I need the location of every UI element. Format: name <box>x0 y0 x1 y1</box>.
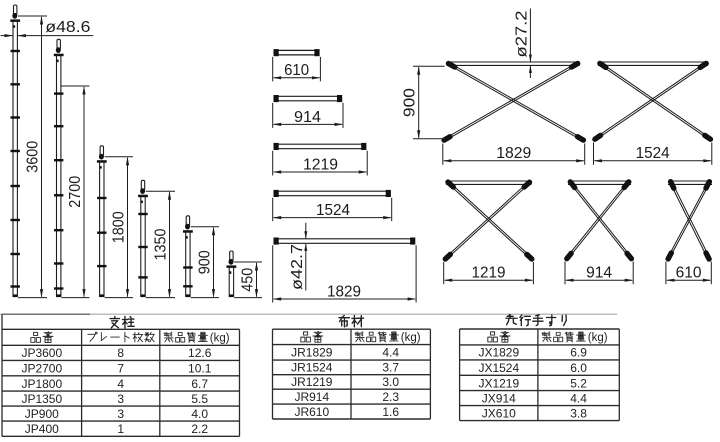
svg-text:JP400: JP400 <box>25 422 59 436</box>
svg-text:6.9: 6.9 <box>570 346 587 360</box>
tube JR610 left end clamp <box>274 49 279 56</box>
post JP3600 tube right <box>16 21 18 298</box>
post JP3600 plate 8 <box>11 285 20 287</box>
tube JR914 dim arrow left <box>273 123 282 126</box>
post JP2700 plate 3 <box>54 159 63 161</box>
svg-text:5.5: 5.5 <box>191 392 208 406</box>
xframe JX610 left extension line <box>665 262 667 285</box>
xframe JX1219 dim arrow left <box>444 279 453 282</box>
post JP2700 tube left <box>56 55 58 297</box>
post JP2700 wedge <box>56 47 61 53</box>
tube JR914 left end clamp <box>274 95 279 102</box>
post JP1350 plate 2 <box>138 246 147 248</box>
svg-text:610: 610 <box>676 265 702 282</box>
post JP2700 plate 6 <box>54 262 63 264</box>
table2 hline 6 <box>273 418 431 420</box>
tube JR610 dimension line <box>274 77 320 79</box>
post JP3600 collar <box>10 19 20 22</box>
post JP1800 plate 3 <box>97 265 106 267</box>
post JP900 pin <box>186 216 189 226</box>
table1 hline 7 <box>2 420 240 422</box>
xframe JX1219 bottom-right clamp <box>527 254 532 259</box>
xframe JX610 diagonal TL-BR <box>671 184 708 258</box>
post JP400 dimension line <box>256 263 258 297</box>
xframe JX914 top rail top edge <box>568 180 631 182</box>
post JP400 collar <box>227 265 237 268</box>
dia27.2 arrow up <box>529 65 532 73</box>
xframe JX610 bottom-right clamp <box>706 253 709 259</box>
svg-text:10.1: 10.1 <box>188 361 212 375</box>
table1 col line 2 <box>159 329 161 436</box>
post JP1800 wedge <box>99 154 104 160</box>
svg-text:JP1350: JP1350 <box>21 392 62 406</box>
post JP900 tube right <box>189 231 191 297</box>
svg-text:610: 610 <box>284 62 309 79</box>
svg-text:1829: 1829 <box>327 283 361 300</box>
post JP900 top extension line <box>191 226 219 228</box>
svg-text:3.0: 3.0 <box>382 375 399 389</box>
xframe JX914 diagonal TR-BL <box>568 183 627 257</box>
svg-text:2.2: 2.2 <box>191 422 208 436</box>
post JP2700 plate 1 <box>54 92 63 94</box>
post JP3600 wedge <box>12 13 17 19</box>
post JP1800 tube left <box>99 161 101 297</box>
table3 header hinban <box>488 331 510 342</box>
xframe JX914 dim arrow right <box>625 279 634 282</box>
table2 col line <box>350 329 352 419</box>
post JP1800 rivet <box>100 166 102 169</box>
post JP400 pin <box>230 251 233 261</box>
xframe JX1524 dim arrow left <box>594 159 603 162</box>
post JP3600 tube left <box>12 21 14 298</box>
svg-text:3.8: 3.8 <box>570 406 587 420</box>
xframe JX914 bottom-right clamp <box>627 253 631 258</box>
xframe JX1219 top-left clamp <box>448 182 453 187</box>
tube JR1219 top edge <box>277 143 363 145</box>
svg-text:4: 4 <box>117 377 124 391</box>
xframe JX1829 dim arrow left <box>443 159 452 162</box>
tube JR610 dim arrow left <box>273 76 282 79</box>
xframe JX1524 dim arrow right <box>703 159 712 162</box>
xframe JX1829 top rail bottom edge <box>447 64 580 66</box>
post JP400 bottom extension line <box>234 297 262 299</box>
tube JR914 right extension line <box>342 103 344 128</box>
xframe JX610 dim arrow right <box>703 279 712 282</box>
table1 hline 3 <box>2 359 240 361</box>
table3 hline 5 <box>460 405 620 407</box>
svg-text:(kg): (kg) <box>210 332 230 344</box>
svg-text:JR1219: JR1219 <box>291 375 333 389</box>
table1 title shichu <box>110 317 134 328</box>
xframe JX610 right extension line <box>710 262 712 285</box>
post JP1800 bottom extension line <box>105 297 133 299</box>
dia48.6 arrow left-pointing <box>17 34 26 37</box>
tube JR1829 bottom edge <box>277 242 412 244</box>
tube JR1829 dimension line <box>274 298 415 300</box>
tube JR914 dimension line <box>274 123 342 125</box>
dia42.7 arrow down <box>304 231 307 239</box>
dia48.6 left leader <box>1 35 13 37</box>
xframe JX1219 top rail bottom edge <box>446 183 532 185</box>
svg-text:2700: 2700 <box>67 176 84 208</box>
tube JR1829 dim arrow left <box>273 297 282 300</box>
table2 left border <box>272 329 274 419</box>
tube JR1219 right extension line <box>366 151 368 176</box>
tube JR1829 dim arrow right <box>408 297 417 300</box>
svg-text:3.7: 3.7 <box>382 361 399 375</box>
post JP400 top extension line <box>234 261 262 263</box>
post JP400 dim arrow down <box>255 289 258 298</box>
post JP400 tube right <box>233 267 235 298</box>
xframe JX610 top rail top edge <box>668 180 712 182</box>
tube JR1524 left extension line <box>272 198 274 221</box>
gray separator line <box>0 313 617 315</box>
tube JR1829 right end clamp <box>410 238 415 245</box>
svg-text:(kg): (kg) <box>401 332 421 344</box>
xframe JX1524 left extension line <box>593 143 595 165</box>
table3 title senko-tesuri <box>506 315 566 326</box>
table1 hline 6 <box>2 405 240 407</box>
table1 left border <box>1 314 3 436</box>
table1 col line 1 <box>81 329 83 436</box>
post JP900 dim arrow up <box>212 227 215 236</box>
tube JR914 top edge <box>277 95 339 97</box>
tube JR1524 dim arrow right <box>383 216 392 219</box>
post JP1800 bottom cap <box>100 294 105 297</box>
table2 header hinban <box>301 331 323 342</box>
table3 hline 4 <box>460 390 620 392</box>
table3 hline 2 <box>460 359 620 361</box>
post JP400 rivet <box>229 271 231 274</box>
post JP2700 top extension line <box>62 85 90 87</box>
svg-text:JR1524: JR1524 <box>291 361 333 375</box>
xframe JX1829 dim arrow right <box>576 159 585 162</box>
post JP1350 tube left <box>140 196 142 297</box>
tube JR1524 left end clamp <box>274 190 279 197</box>
post JP1350 top extension line <box>146 190 175 192</box>
xframe JX1524 diagonal TR-BL <box>596 64 704 138</box>
tube JR610 left extension line <box>272 57 274 81</box>
dia42.7 arrow up <box>304 243 307 251</box>
table1 hline 1 <box>2 328 240 330</box>
xframe JX1524 bottom-right clamp <box>705 135 711 139</box>
post JP2700 dim arrow down <box>82 289 85 298</box>
svg-text:4.0: 4.0 <box>191 407 208 421</box>
tube JR1524 dimension line <box>274 217 391 219</box>
post JP1800 collar <box>97 160 107 163</box>
post JP1350 dimension line <box>169 192 171 296</box>
post JP900 rivet <box>186 236 188 239</box>
xframe JX1829 bottom-right clamp <box>578 137 584 140</box>
xframe JX610 dim arrow left <box>666 279 675 282</box>
svg-text:1350: 1350 <box>152 228 169 260</box>
xframe JX610 bottom-left clamp <box>668 253 671 259</box>
xframe JX1524 top-left clamp <box>600 63 606 67</box>
tube JR610 top edge <box>277 49 316 51</box>
post JP2700 dim arrow up <box>82 86 85 95</box>
post JP2700 bottom extension line <box>62 297 90 299</box>
svg-text:1524: 1524 <box>316 202 350 219</box>
tube JR610 dim arrow right <box>312 76 321 79</box>
post JP1350 plate 3 <box>138 276 147 278</box>
xframe JX1219 bottom-left clamp <box>445 254 450 259</box>
table1 header seihin-shitsuryo <box>164 332 208 342</box>
post JP2700 plate 5 <box>54 229 63 231</box>
post JP900 collar <box>183 230 193 233</box>
post JP2700 pin <box>57 39 60 49</box>
xframe JX1524 top-right clamp <box>700 63 706 67</box>
dia27.2 arrow down <box>529 55 532 63</box>
tube JR610 right end clamp <box>314 49 319 56</box>
xframe JX914 dim arrow left <box>565 279 574 282</box>
svg-text:6.7: 6.7 <box>191 377 208 391</box>
post JP3600 plate 7 <box>11 253 20 255</box>
post JP1350 pin <box>141 180 144 190</box>
post JP900 dimension line <box>213 228 215 297</box>
xframe JX610 top-left clamp <box>671 182 674 189</box>
svg-text:JR610: JR610 <box>294 405 329 419</box>
svg-text:914: 914 <box>586 265 612 282</box>
post JP3600 plate 6 <box>11 219 20 221</box>
svg-text:900: 900 <box>402 88 419 117</box>
tube JR610 bottom edge <box>277 54 316 56</box>
900dim arrow down <box>417 130 420 139</box>
xframe JX1829 diagonal TL-BR <box>450 65 581 140</box>
svg-text:ø48.6: ø48.6 <box>45 19 90 36</box>
post JP2700 bottom cap <box>56 294 61 297</box>
svg-text:3600: 3600 <box>24 141 41 173</box>
post JP1350 bottom extension line <box>146 297 175 299</box>
post JP1350 tube right <box>144 196 146 297</box>
svg-text:900: 900 <box>196 250 213 274</box>
dia48.6 right leader <box>18 35 94 37</box>
dia27.2 lower leader <box>529 66 531 78</box>
tube JR1219 dimension line <box>274 171 367 173</box>
tube JR1219 left extension line <box>272 151 274 176</box>
svg-text:JP1800: JP1800 <box>21 377 62 391</box>
post JP3600 dim arrow down <box>40 289 43 298</box>
table1 header hinban <box>31 332 53 343</box>
svg-text:ø42.7: ø42.7 <box>289 244 306 290</box>
post JP2700 plate 2 <box>54 125 63 127</box>
xframe JX914 dimension line <box>566 279 632 281</box>
svg-text:1524: 1524 <box>636 145 670 162</box>
xframe JX914 top-right clamp <box>624 182 629 188</box>
post JP1800 pin <box>100 146 103 156</box>
xframe JX610 dimension line <box>667 279 710 281</box>
xframe JX914 left extension line <box>564 262 566 285</box>
post JP3600 plate 3 <box>11 116 20 118</box>
svg-text:1219: 1219 <box>472 265 506 282</box>
tube JR1524 right end clamp <box>386 190 391 197</box>
table2 hline 5 <box>273 403 431 405</box>
table3 hline 0 <box>460 328 620 330</box>
post JP1350 wedge <box>140 188 145 194</box>
xframe JX1829 diagonal TR-BL <box>446 64 576 139</box>
900dim dimension line <box>418 67 420 138</box>
post JP900 plate 1 <box>183 266 192 268</box>
post JP1800 plate 2 <box>97 232 106 234</box>
table1 hline 8 <box>2 435 240 437</box>
post JP3600 plate 2 <box>11 83 20 85</box>
table3 right border <box>618 329 620 421</box>
table3 header seihin-shitsuryo <box>542 332 586 342</box>
post JP1800 tube right <box>103 161 105 297</box>
tube JR1829 left extension line <box>272 245 274 302</box>
svg-text:6.0: 6.0 <box>570 361 587 375</box>
xframe JX1829 dimension line <box>444 160 584 162</box>
post JP3600 dim arrow up <box>40 16 43 25</box>
900dim top extension line <box>413 65 445 67</box>
post JP900 bottom cap <box>186 294 191 297</box>
svg-text:JX610: JX610 <box>482 406 516 420</box>
xframe JX914 top rail bottom edge <box>568 183 631 185</box>
table1 hline 5 <box>2 390 240 392</box>
xframe JX1219 diagonal TL-BR <box>449 184 530 258</box>
post JP1350 rivet <box>141 201 143 204</box>
post JP400 bottom cap <box>229 294 234 297</box>
tube JR914 right end clamp <box>337 95 342 102</box>
post JP3600 bottom cap <box>13 294 18 297</box>
table2 hline 4 <box>273 388 431 390</box>
tube JR1219 dim arrow left <box>273 170 282 173</box>
table2 hline 1 <box>273 344 431 346</box>
xframe JX1524 bottom-left clamp <box>595 135 601 139</box>
xframe JX914 right extension line <box>632 262 634 285</box>
post JP400 dim arrow up <box>255 262 258 271</box>
tube JR1829 right extension line <box>415 245 417 302</box>
xframe JX610 top rail bottom edge <box>668 183 712 185</box>
tube JR1219 bottom edge <box>277 148 363 150</box>
post JP1350 dim arrow down <box>168 289 171 298</box>
svg-text:1219: 1219 <box>303 156 338 173</box>
table2 title fuzai <box>339 315 364 326</box>
tube JR1524 dim arrow left <box>273 216 282 219</box>
table2 hline 0 <box>273 328 431 330</box>
xframe JX1219 diagonal TR-BL <box>446 183 527 257</box>
post JP900 wedge <box>185 224 190 230</box>
table1 hline 4 <box>2 375 240 377</box>
xframe JX1219 right extension line <box>532 262 534 284</box>
post JP1800 plate 1 <box>97 197 106 199</box>
post JP900 bottom extension line <box>191 297 219 299</box>
table3 hline 3 <box>460 374 620 376</box>
xframe JX1829 bottom-left clamp <box>444 137 450 140</box>
xframe JX1219 dimension line <box>445 279 533 281</box>
xframe JX1829 right extension line <box>584 144 586 165</box>
post JP400 tube left <box>228 267 230 298</box>
svg-text:12.6: 12.6 <box>188 346 212 360</box>
post JP2700 plate 7 <box>54 287 63 289</box>
svg-text:4.4: 4.4 <box>382 346 399 360</box>
dia48.6 arrow right-pointing <box>5 34 14 37</box>
900dim bottom extension line <box>413 138 445 140</box>
xframe JX1829 top-left clamp <box>449 64 455 68</box>
xframe JX1524 right extension line <box>711 143 713 165</box>
xframe JX914 diagonal TL-BR <box>571 184 630 258</box>
svg-text:JP3600: JP3600 <box>21 346 62 360</box>
svg-text:5.2: 5.2 <box>570 376 587 390</box>
post JP2700 rivet <box>57 60 59 63</box>
svg-text:(kg): (kg) <box>588 332 608 344</box>
xframe JX1524 top rail top edge <box>598 61 708 63</box>
svg-text:1800: 1800 <box>110 211 127 243</box>
tube JR1829 top edge <box>277 238 412 240</box>
xframe JX1219 top rail top edge <box>446 180 532 182</box>
post JP3600 plate 1 <box>11 50 20 52</box>
post JP1800 top extension line <box>105 156 133 158</box>
xframe JX1829 top rail top edge <box>447 61 580 63</box>
svg-text:JP900: JP900 <box>25 407 59 421</box>
table2 right border <box>429 329 431 419</box>
svg-text:3: 3 <box>117 407 124 421</box>
tube JR914 dim arrow right <box>335 123 344 126</box>
svg-text:7: 7 <box>117 361 124 375</box>
svg-text:4.4: 4.4 <box>570 391 587 405</box>
post JP1800 dimension line <box>127 158 129 297</box>
xframe JX610 diagonal TR-BL <box>668 183 707 257</box>
xframe JX1219 dim arrow right <box>525 279 534 282</box>
table1 header plate-maisu <box>88 332 155 342</box>
xframe JX1219 top-right clamp <box>524 182 529 187</box>
table3 col line <box>537 329 539 421</box>
post JP1800 dim arrow up <box>126 157 129 166</box>
post JP2700 plate 4 <box>54 194 63 196</box>
svg-text:2.3: 2.3 <box>382 390 399 404</box>
xframe JX914 top-left clamp <box>570 182 574 188</box>
post JP3600 rivet <box>13 25 15 28</box>
svg-text:914: 914 <box>294 109 321 126</box>
tube JR914 bottom edge <box>277 100 339 102</box>
post JP1350 plate 1 <box>138 213 147 215</box>
table2 hline 2 <box>273 359 431 361</box>
post JP900 plate 2 <box>183 285 192 287</box>
post JP3600 plate 4 <box>11 150 20 152</box>
post JP3600 top extension line <box>18 15 47 17</box>
xframe JX1524 top rail bottom edge <box>598 64 708 66</box>
tube JR1829 left end clamp <box>274 238 279 245</box>
post JP3600 bottom extension line <box>18 297 47 299</box>
tube JR1219 dim arrow right <box>359 170 368 173</box>
post JP2700 dimension line <box>83 87 85 297</box>
svg-text:1.6: 1.6 <box>382 405 399 419</box>
xframe JX914 bottom-left clamp <box>567 253 571 258</box>
post JP2700 tube right <box>60 55 62 297</box>
svg-text:JP2700: JP2700 <box>21 361 62 375</box>
xframe JX1219 left extension line <box>443 262 445 284</box>
table2 header seihin-shitsuryo <box>355 332 399 342</box>
svg-text:JR1829: JR1829 <box>291 346 333 360</box>
table3 left border <box>459 329 461 421</box>
xframe JX1829 left extension line <box>442 144 444 165</box>
dia27.2 upper leader <box>529 9 531 62</box>
post JP1350 bottom cap <box>141 294 146 297</box>
xframe JX1524 dimension line <box>595 160 711 162</box>
svg-text:8: 8 <box>117 346 124 360</box>
svg-text:JR914: JR914 <box>294 390 329 404</box>
post JP3600 dimension line <box>41 17 43 297</box>
tube JR914 left extension line <box>272 103 274 128</box>
post JP2700 collar <box>54 54 64 57</box>
svg-text:JX914: JX914 <box>482 391 516 405</box>
table2 hline 3 <box>273 374 431 376</box>
xframe JX1829 top-right clamp <box>572 64 578 68</box>
post JP400 wedge <box>229 259 234 265</box>
tube JR1524 right extension line <box>391 198 393 221</box>
tube JR610 right extension line <box>319 57 321 81</box>
svg-text:1829: 1829 <box>496 145 531 162</box>
svg-text:1: 1 <box>117 422 124 436</box>
